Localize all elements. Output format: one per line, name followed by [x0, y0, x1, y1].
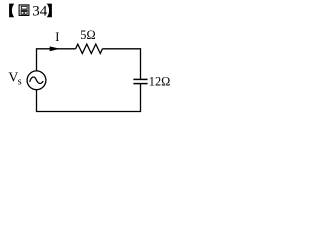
svg-text:34: 34 — [32, 4, 48, 20]
svg-text:s: s — [18, 77, 22, 88]
resistor 5Ω zigzag — [76, 44, 103, 53]
current arrow head — [50, 46, 60, 51]
svg-text:5Ω: 5Ω — [80, 28, 95, 42]
svg-text:I: I — [55, 30, 59, 44]
wire: right bottom segment — [37, 84, 141, 112]
title bracket left 【 — [9, 4, 14, 18]
title character 圖 — [19, 5, 29, 16]
title bracket right 】 — [47, 4, 52, 18]
wire: top left segment with corner — [37, 49, 76, 71]
svg-text:12Ω: 12Ω — [149, 74, 170, 88]
wire: top right segment with corner down to capacitor — [102, 49, 140, 80]
source Vs circle — [27, 71, 46, 90]
capacitor top plate — [133, 78, 147, 80]
source sine wave — [30, 77, 43, 83]
capacitor bottom plate — [133, 83, 147, 85]
